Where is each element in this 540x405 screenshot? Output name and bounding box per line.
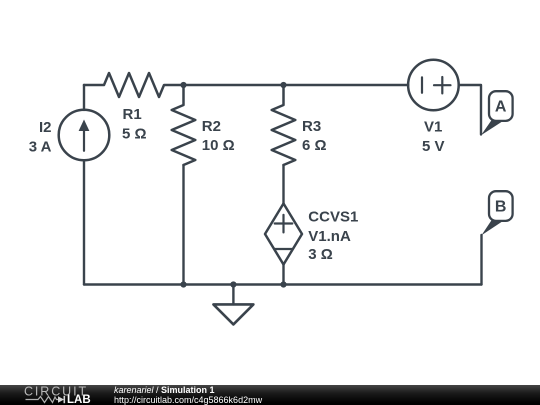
wire: I2 bottom lead to bottom rail [83,160,85,284]
ground [213,285,253,325]
junction node ground [230,281,236,287]
junction node at R3 top [280,82,286,88]
wire: bottom rail [84,283,482,285]
svg-text:R2: R2 [202,118,221,135]
voltage source V1 [408,60,459,111]
CircuitLab logo [0,385,110,405]
footer bar [0,385,540,405]
svg-text:3 A: 3 A [29,138,52,155]
svg-text:V1: V1 [424,119,442,136]
wire: top rail from R1 to V1 [184,84,408,86]
svg-text:V1.nA: V1.nA [308,228,351,245]
current source I2 [59,110,110,161]
resistor R3 [272,85,296,165]
junction node CCVS1 bottom [280,281,286,287]
label CCVS1 V1.nA 3Ω [308,209,358,263]
resistor R1 [84,73,184,97]
label V1 5V [422,119,445,155]
junction node R2 bottom [180,281,186,287]
svg-text:5 Ω: 5 Ω [122,125,147,142]
resistor R2 [172,85,196,165]
svg-text:R3: R3 [302,118,321,135]
wire: R3 bottom lead to CCVS1 [282,165,284,204]
junction node at R1/R2 [180,82,186,88]
wire: CCVS1 bottom lead to bottom rail [282,265,284,285]
label R2 10Ω [202,118,235,154]
svg-text:6 Ω: 6 Ω [302,137,327,154]
svg-text:R1: R1 [123,106,142,123]
svg-text:LAB: LAB [67,394,91,405]
label I2 3A [29,119,52,155]
node A flag [481,91,513,135]
wire: R2 bottom lead to bottom rail [182,165,184,285]
wire: I2 top lead to top rail [83,85,85,110]
svg-text:3 Ω: 3 Ω [308,246,333,263]
label R3 6Ω [302,118,327,154]
wire: node B to bottom rail [480,235,482,285]
wire: V1 right lead to node A corner [459,85,481,135]
svg-text:5 V: 5 V [422,138,445,155]
svg-text:B: B [495,199,507,216]
svg-text:10 Ω: 10 Ω [202,137,235,154]
label R1 5Ω [122,106,147,142]
svg-text:I2: I2 [39,119,52,136]
node B flag [482,191,513,235]
footer text [114,386,262,405]
controlled source CCVS1 [265,204,302,265]
svg-text:A: A [495,99,507,116]
svg-text:CCVS1: CCVS1 [308,209,358,226]
